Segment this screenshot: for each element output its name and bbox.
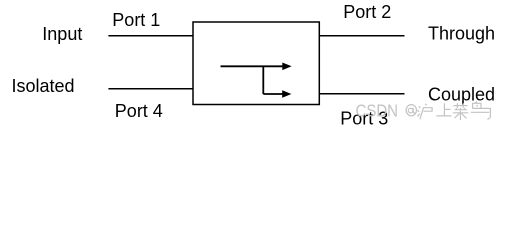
- svg-text:Input: Input: [42, 24, 82, 44]
- watermark at-sign: [406, 105, 416, 116]
- arrow coupled branch: [263, 93, 283, 95]
- svg-text:Port 2: Port 2: [343, 2, 391, 22]
- arrow main through-path: [221, 65, 284, 67]
- coupler box: [193, 22, 319, 105]
- wire port1 input: [108, 35, 193, 37]
- wire coupled branch vertical: [262, 66, 264, 94]
- wire port4 isolated: [108, 88, 193, 90]
- watermark hanzi cai: [453, 103, 469, 120]
- watermark hanzi hu: [417, 104, 432, 119]
- svg-text:CSDN: CSDN: [356, 100, 399, 120]
- svg-text:Through: Through: [428, 24, 495, 44]
- wire port3 coupled: [319, 93, 404, 95]
- svg-text:Port 4: Port 4: [115, 101, 163, 121]
- svg-text:Coupled: Coupled: [428, 85, 495, 105]
- wire port2 through: [319, 35, 404, 37]
- watermark hanzi niao: [471, 102, 491, 120]
- svg-text:Port 1: Port 1: [112, 10, 160, 30]
- watermark hanzi shang: [436, 103, 451, 116]
- svg-text:Isolated: Isolated: [12, 76, 75, 96]
